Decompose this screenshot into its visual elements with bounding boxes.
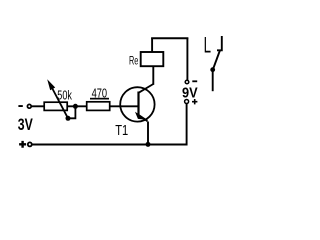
potentiometer R1 body 50k — [44, 102, 67, 110]
resistor R2 470 body — [87, 102, 110, 111]
terminal (-) of 3V battery — [27, 104, 31, 108]
svg-text:L: L — [204, 33, 211, 58]
transistor T1 collector diagonal — [139, 84, 154, 93]
transistor T1 circle — [120, 87, 154, 121]
plus sign 3V (bold) — [19, 141, 26, 148]
junction dot emitter/bottom rail — [146, 142, 151, 147]
svg-text:9V: 9V — [182, 84, 198, 101]
switch arm — [213, 51, 220, 70]
battery 3V minus sign — [18, 105, 22, 107]
wiper branch wire to junction — [68, 106, 75, 118]
transistor T1 emitter diagonal — [139, 115, 148, 122]
switch fixed contact lead — [217, 36, 222, 50]
junction dot on main wire — [73, 104, 78, 109]
potentiometer wiper arrowhead — [47, 79, 55, 90]
wire: 3V(-) to potentiometer — [31, 105, 44, 107]
terminal (-) of 9V — [185, 80, 189, 84]
switch pivot dot — [210, 67, 215, 72]
wire: potentiometer to resistor 470 — [67, 105, 86, 107]
wire: 9V plus terminal down to bottom rail — [186, 104, 188, 146]
collector wire up to relay coil — [152, 66, 154, 85]
svg-text:T1: T1 — [115, 123, 128, 139]
bottom rail wire — [32, 144, 188, 146]
right rail down to 9V minus terminal — [186, 38, 188, 81]
svg-text:Re: Re — [129, 54, 138, 67]
svg-text:50k: 50k — [57, 88, 72, 103]
wire: resistor 470 to transistor base — [110, 105, 139, 107]
terminal (+) of 3V battery — [28, 142, 32, 146]
minus sign 9V — [192, 80, 197, 82]
relay coil Re body — [141, 52, 164, 66]
wire: relay top to top rail — [151, 38, 153, 53]
terminal (+) of 9V — [185, 100, 189, 104]
top rail wire — [151, 37, 188, 39]
switch lower lead — [212, 70, 214, 91]
potentiometer wiper arrow shaft — [51, 85, 69, 118]
wiper end dot — [66, 116, 71, 121]
underline below 470 label — [90, 98, 109, 100]
transistor T1 base bar — [137, 92, 139, 118]
plus sign 9V — [192, 99, 197, 104]
svg-text:3V: 3V — [18, 115, 33, 134]
emitter wire down to bottom rail — [147, 122, 149, 145]
emitter arrowhead — [135, 112, 148, 120]
